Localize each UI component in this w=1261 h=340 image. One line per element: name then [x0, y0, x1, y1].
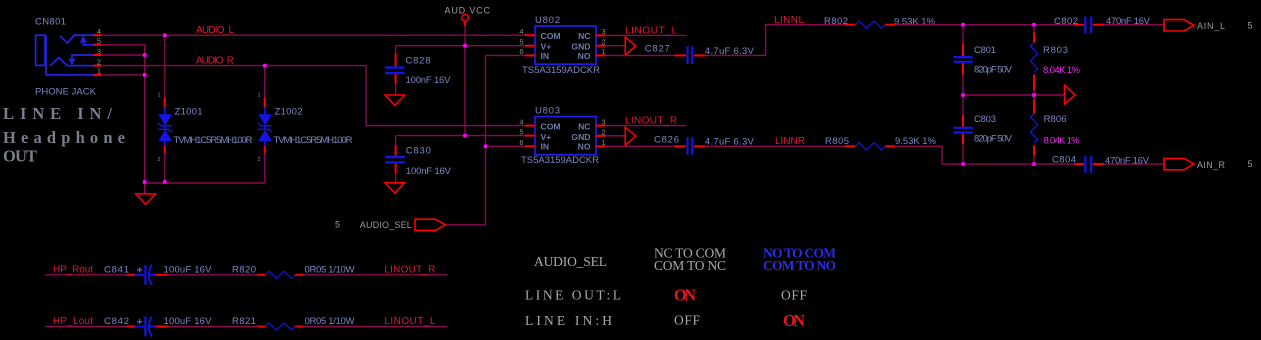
wire HP_Rout row: [45, 274, 127, 276]
capacitor C827: [688, 46, 693, 64]
svg-text:2: 2: [257, 157, 260, 163]
ground symbol U802 (sideways): [625, 37, 636, 55]
power symbol AUD VCC: [462, 14, 469, 21]
jack tip switch arrow up: [80, 36, 87, 43]
svg-text:NO: NO: [578, 142, 591, 152]
svg-text:C842: C842: [104, 316, 129, 327]
wire C827 to LINNL: [694, 54, 705, 56]
svg-text:C841: C841: [104, 264, 129, 275]
svg-text:OFF: OFF: [674, 313, 700, 328]
analog switch U802: [535, 26, 596, 64]
wire LINOUT_L: [606, 34, 687, 36]
svg-text:5: 5: [519, 38, 523, 47]
jack ring switch arrow down: [68, 59, 75, 66]
svg-text:9.53K 1%: 9.53K 1%: [894, 16, 936, 27]
svg-text:CN801: CN801: [35, 17, 66, 28]
svg-text:TS5A3159ADCKR: TS5A3159ADCKR: [522, 65, 600, 76]
node junction dots jack area: [143, 33, 267, 183]
wire AUD VCC vertical: [464, 21, 466, 26]
capacitor C841 (polarized): [135, 274, 156, 276]
TVS diode Z1001: [158, 108, 172, 146]
wire C841 to R820: [156, 274, 168, 276]
resistor R806 zigzag: [1030, 113, 1037, 143]
capacitor C803: [953, 128, 972, 133]
junction dots middle: [463, 23, 1036, 166]
svg-text:1: 1: [602, 47, 606, 56]
svg-text:AIN_L: AIN_L: [1197, 21, 1225, 31]
svg-text:C826: C826: [654, 134, 679, 145]
svg-text:0R05 1/10W: 0R05 1/10W: [305, 316, 355, 327]
svg-text:LINNL: LINNL: [774, 15, 804, 26]
svg-text:COM: COM: [541, 31, 561, 41]
wire Z1002 column: [264, 66, 266, 183]
svg-text:6: 6: [519, 138, 523, 147]
svg-text:HP_Lout: HP_Lout: [53, 316, 93, 327]
svg-text:100uF 16V: 100uF 16V: [164, 264, 213, 275]
ground under C830: [385, 183, 405, 194]
wire U803 GND pin: [606, 135, 626, 137]
capacitor C804: [1075, 163, 1085, 165]
capacitor C828: [385, 68, 405, 73]
svg-text:3: 3: [602, 117, 606, 126]
svg-text:TS5A3159ADCKR: TS5A3159ADCKR: [521, 155, 599, 166]
wire to LINOUT_L: [303, 326, 447, 328]
svg-text:AUDIO_R: AUDIO_R: [196, 56, 234, 67]
resistor R802: [845, 24, 855, 26]
svg-text:3: 3: [97, 47, 101, 56]
svg-text:2: 2: [97, 57, 101, 66]
wire AUDIO_SEL vertical and branches: [445, 55, 525, 224]
svg-text:PHONE JACK: PHONE JACK: [35, 87, 97, 98]
svg-text:C802: C802: [1054, 16, 1078, 27]
wire jack pin5 to sleeve ground column: [101, 45, 145, 183]
wire to LINOUT_R: [303, 274, 447, 276]
svg-text:R820: R820: [232, 264, 256, 275]
svg-text:1: 1: [97, 67, 101, 76]
off-page connector AIN_R: [1164, 158, 1194, 169]
capacitor C803 column: [962, 95, 964, 164]
connector CN801 phone jack symbol: [36, 35, 93, 75]
resistor R805: [845, 145, 855, 147]
capacitor C802: [1075, 24, 1085, 26]
svg-text:GND: GND: [571, 132, 590, 142]
wire jack pin3: [101, 54, 145, 56]
capacitor C842 (polarized): [135, 326, 156, 328]
wire AUDIO_R: [101, 66, 525, 126]
wire jack pin1: [101, 74, 145, 76]
wire LINNL node rail: [895, 24, 1077, 26]
Z1002 pin stubs: [264, 97, 266, 153]
svg-text:R803: R803: [1043, 45, 1068, 56]
svg-text:LINE IN/: LINE IN/: [3, 104, 112, 123]
TVS diode Z1002: [258, 108, 272, 146]
svg-text:LINE OUT:L: LINE OUT:L: [525, 288, 621, 303]
svg-text:TVMH1C5R5MH100R: TVMH1C5R5MH100R: [274, 135, 353, 146]
resistor R821: [257, 326, 265, 328]
svg-text:NC: NC: [578, 31, 590, 41]
svg-text:V+: V+: [541, 41, 552, 51]
svg-text:1: 1: [602, 138, 606, 147]
wire HP_Lout row: [45, 326, 127, 328]
svg-text:C801: C801: [974, 45, 996, 56]
svg-text:4: 4: [519, 27, 523, 36]
capacitor C830 column wires: [395, 136, 397, 183]
svg-text:5: 5: [97, 37, 101, 46]
svg-text:AIN_R: AIN_R: [1197, 160, 1226, 170]
svg-text:C803: C803: [974, 114, 996, 125]
svg-text:100nF 16V: 100nF 16V: [406, 75, 452, 86]
capacitor C826: [688, 137, 693, 155]
svg-text:1: 1: [157, 93, 160, 99]
svg-text:NC: NC: [578, 121, 590, 131]
resistor R820: [257, 274, 265, 276]
svg-text:820pF 50V: 820pF 50V: [974, 65, 1013, 76]
svg-text:470nF 16V: 470nF 16V: [1105, 155, 1150, 166]
svg-text:AUDIO_SEL: AUDIO_SEL: [534, 254, 607, 269]
wire U802 GND pin: [606, 45, 626, 47]
svg-text:IN: IN: [541, 142, 550, 152]
svg-text:LINNR: LINNR: [775, 136, 805, 147]
wire C826 to LINNR: [694, 145, 705, 147]
svg-text:4: 4: [519, 117, 523, 126]
resistor R806 column: [1033, 95, 1035, 100]
capacitor C828 column wires: [395, 46, 397, 95]
svg-text:C830: C830: [406, 146, 431, 157]
svg-text:2: 2: [602, 128, 606, 137]
ground under C828: [385, 95, 405, 106]
svg-text:OUT: OUT: [3, 147, 37, 166]
svg-text:GND: GND: [571, 41, 590, 51]
svg-text:ON: ON: [783, 311, 805, 330]
svg-text:AUDIO_L: AUDIO_L: [196, 25, 234, 36]
wire ground rail under jack: [145, 183, 265, 194]
svg-text:0R05 1/10W: 0R05 1/10W: [305, 264, 355, 275]
svg-text:R802: R802: [824, 16, 848, 27]
svg-text:3: 3: [602, 27, 606, 36]
svg-text:5: 5: [519, 128, 523, 137]
svg-text:OFF: OFF: [781, 288, 807, 303]
svg-text:AUD VCC: AUD VCC: [445, 6, 491, 16]
svg-text:1: 1: [257, 93, 260, 99]
wire LINNR to row2 node rail: [895, 146, 1077, 164]
svg-text:TVMH1C5R5MH100R: TVMH1C5R5MH100R: [174, 135, 253, 146]
analog switch U803: [535, 117, 596, 155]
svg-text:5: 5: [335, 220, 340, 230]
svg-text:100uF 16V: 100uF 16V: [164, 316, 213, 327]
wire V+ rail U803: [396, 135, 525, 137]
svg-text:2: 2: [602, 38, 606, 47]
svg-text:LINOUT_R: LINOUT_R: [625, 115, 677, 126]
svg-text:Z1002: Z1002: [275, 107, 303, 118]
wire AGND rail row1: [963, 94, 1064, 96]
svg-text:2: 2: [157, 157, 160, 163]
ground symbol under jack: [136, 194, 156, 205]
svg-text:R821: R821: [232, 316, 256, 327]
wire AUDIO_L: [101, 34, 525, 36]
U802 pin stubs: [525, 35, 606, 55]
svg-text:C828: C828: [406, 55, 431, 66]
ground symbol AGND (sideways): [1065, 85, 1076, 104]
off-page connector AIN_L: [1164, 20, 1194, 31]
svg-text:LINOUT_L: LINOUT_L: [625, 25, 677, 36]
svg-text:NO: NO: [578, 51, 591, 61]
wire LINOUT_R: [606, 125, 687, 127]
svg-text:LINOUT_R: LINOUT_R: [384, 265, 435, 276]
svg-text:IN: IN: [541, 51, 550, 61]
wire U802 NO to C827: [606, 54, 675, 56]
svg-text:470nF 16V: 470nF 16V: [1106, 16, 1151, 27]
capacitor C801: [953, 57, 972, 62]
svg-text:Headphone: Headphone: [3, 128, 125, 147]
svg-text:5: 5: [1248, 20, 1253, 30]
ground symbol U803 (sideways): [625, 127, 636, 145]
svg-text:R805: R805: [825, 136, 849, 147]
svg-text:100nF 16V: 100nF 16V: [406, 166, 452, 177]
Z1001 pin stubs: [164, 97, 166, 153]
svg-text:HP_Rout: HP_Rout: [53, 265, 93, 276]
U803 pin stubs: [525, 126, 606, 147]
wire Z1001 column: [164, 35, 166, 183]
svg-text:V+: V+: [541, 132, 552, 142]
svg-text:COM TO NO: COM TO NO: [763, 258, 836, 273]
svg-text:COM: COM: [541, 121, 561, 131]
svg-text:5: 5: [1248, 159, 1253, 169]
svg-text:U803: U803: [535, 106, 560, 117]
svg-text:Z1001: Z1001: [175, 107, 203, 118]
svg-text:8.04K 1%: 8.04K 1%: [1044, 136, 1081, 147]
svg-text:8.04K 1%: 8.04K 1%: [1043, 65, 1081, 76]
svg-text:820pF 50V: 820pF 50V: [974, 134, 1013, 145]
CN801 pin stubs: [93, 35, 102, 75]
svg-text:6: 6: [519, 47, 523, 56]
svg-text:4: 4: [97, 27, 101, 36]
resistor R803 column: [1033, 25, 1035, 33]
wire C842 to R821: [156, 326, 168, 328]
capacitor C830: [385, 157, 405, 162]
wire U803 NO to C826: [606, 145, 675, 147]
wire V+ rail U802: [396, 45, 525, 47]
svg-text:R806: R806: [1044, 114, 1067, 125]
svg-text:AUDIO_SEL: AUDIO_SEL: [360, 220, 412, 230]
svg-text:C804: C804: [1052, 155, 1076, 166]
svg-text:U802: U802: [535, 15, 560, 26]
off-page connector AUDIO_SEL: [415, 219, 445, 230]
svg-text:LINOUT_L: LINOUT_L: [384, 316, 435, 327]
svg-text:ON: ON: [674, 286, 696, 305]
svg-text:9.53K 1%: 9.53K 1%: [895, 136, 937, 147]
resistor R803 zigzag: [1030, 42, 1037, 72]
svg-text:C827: C827: [645, 44, 670, 55]
svg-text:COM TO NC: COM TO NC: [654, 258, 726, 273]
capacitor C801 column: [962, 25, 964, 95]
